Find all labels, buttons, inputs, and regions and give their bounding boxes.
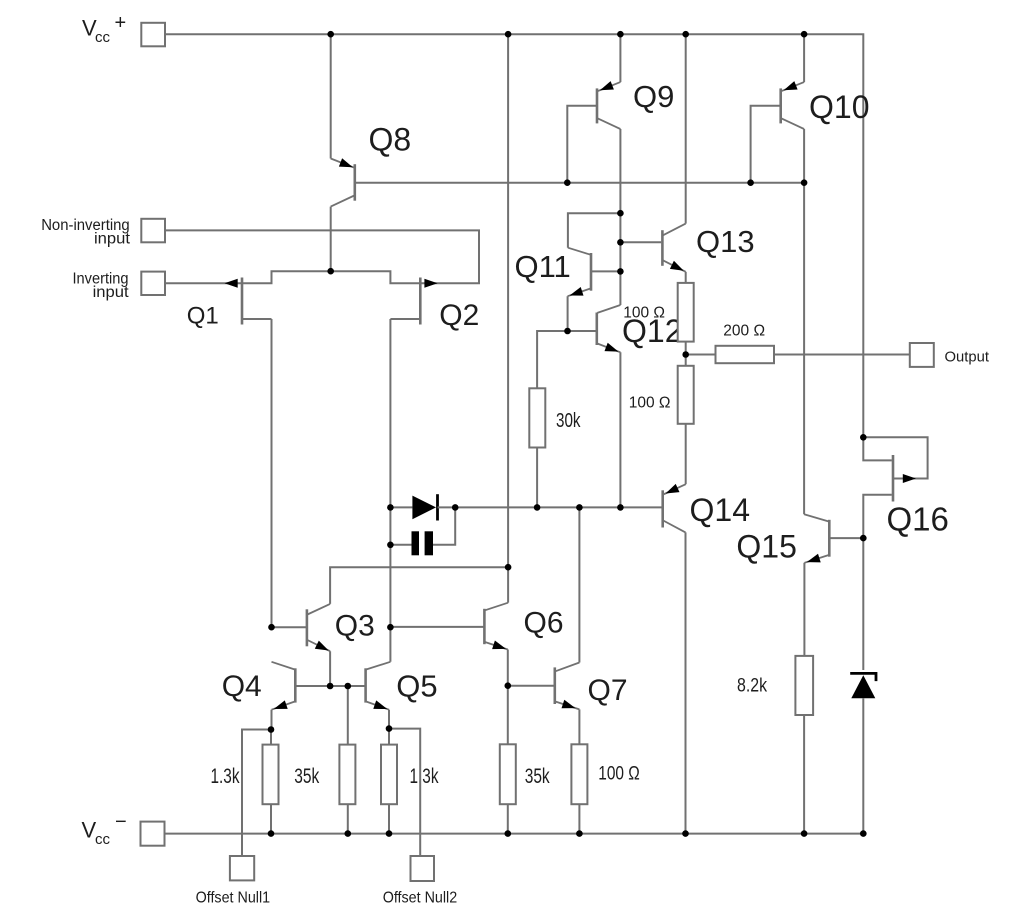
transistor Q13 — [620, 224, 754, 272]
wire Q15 base node down to zener — [862, 538, 864, 670]
svg-text:Q14: Q14 — [690, 492, 750, 528]
power terminal Vcc- — [141, 822, 165, 846]
label Vcc+ — [82, 12, 126, 46]
svg-text:Q15: Q15 — [736, 529, 796, 565]
transistor Q14 — [663, 484, 750, 533]
wire Q3 collector to Q6 collector node — [330, 567, 508, 604]
svg-text:Q8: Q8 — [369, 122, 412, 158]
transistor Q1 — [187, 278, 272, 330]
power terminal Vcc+ — [141, 23, 165, 47]
resistor 1.3k left — [211, 745, 279, 805]
wire Offset Null1 to Q4 emitter — [242, 730, 271, 857]
svg-text:Offset Null1: Offset Null1 — [196, 890, 271, 907]
wire Q4 emitter down — [271, 710, 273, 730]
wire 1.3k left top — [270, 730, 272, 745]
resistor 35k right — [500, 744, 550, 804]
svg-text:Q7: Q7 — [588, 674, 628, 707]
terminal Offset Null1 — [230, 856, 254, 880]
resistor 200 ohm — [716, 323, 775, 364]
svg-text:Q5: Q5 — [396, 669, 437, 704]
wire Q10 collector down to Q15 collector — [803, 129, 805, 514]
wire 35k right bottom — [507, 804, 509, 833]
svg-text:Q2: Q2 — [439, 299, 479, 332]
wire output node tap — [686, 354, 716, 356]
svg-text:Q3: Q3 — [335, 610, 375, 643]
wire Q10 emitter to Vcc+ — [803, 34, 805, 82]
junction Q11 emitter/Q12 base/30k — [564, 328, 571, 335]
wire Q8 collector to Q1/Q2 collector node — [330, 207, 332, 272]
wire Vcc+ top rail — [165, 34, 863, 437]
wire between 100 ohm resistors — [685, 342, 687, 366]
svg-text:35k: 35k — [525, 765, 550, 788]
resistor 30k — [529, 388, 581, 447]
input terminal Inverting input — [141, 272, 165, 295]
transistor Q5 — [366, 662, 438, 710]
svg-text:Output: Output — [945, 349, 990, 366]
junction Vcc-/100 ohm — [576, 830, 583, 837]
junction diode cathode/capacitor — [452, 504, 459, 511]
wire Offset Null2 to Q5 emitter — [389, 729, 420, 856]
wire x508 from Vcc+ to Q6 node — [507, 34, 509, 567]
wire 1.3k left bottom — [270, 804, 272, 833]
svg-text:1.3k: 1.3k — [211, 765, 240, 788]
wire non-inverting input to Q2 emitter — [165, 230, 479, 283]
wire Q2 base down to Q5 collector — [389, 319, 391, 662]
wire 35k left bottom — [347, 804, 349, 833]
resistor 35k left — [294, 745, 355, 805]
wire Q12 emitter down to Q14 base node — [619, 352, 621, 507]
junction Q12 emitter/diode row — [617, 504, 624, 511]
resistor 100 ohm upper — [623, 283, 693, 342]
label Offset Null2 — [383, 890, 458, 907]
junction Vcc-/35k right — [505, 830, 512, 837]
wire Vcc- bottom rail — [165, 833, 864, 835]
label Vcc- — [82, 811, 127, 848]
transistor Q4 — [222, 662, 296, 710]
junction 30k bottom/diode row — [534, 504, 541, 511]
svg-text:Q1: Q1 — [187, 303, 219, 330]
transistor Q8 — [331, 122, 411, 207]
junction Q6 emitter/Q7 base/35k — [505, 682, 512, 689]
wire 35k right top — [507, 686, 509, 745]
svg-text:Q9: Q9 — [633, 79, 674, 114]
input terminal Non-inverting input — [141, 219, 165, 243]
wire diode row to Q14 base — [438, 506, 662, 508]
resistor 100 ohm lower — [629, 366, 694, 424]
transistor Q15 — [736, 514, 863, 564]
junction Vcc+/Q8 emitter — [327, 31, 334, 38]
wire Q13 emitter to Vcc+ — [685, 34, 687, 223]
svg-text:1.3k: 1.3k — [410, 765, 439, 788]
junction Q11 base node — [617, 268, 624, 275]
transistor Q7 — [508, 663, 627, 710]
svg-text:+: + — [115, 12, 127, 34]
wire Q7 emitter down — [578, 709, 580, 744]
junction Vcc-/8.2k — [801, 830, 808, 837]
wire 1.3k right bottom — [388, 804, 390, 833]
svg-text:cc: cc — [95, 29, 111, 46]
wire Q14 collector to Vcc- — [685, 532, 687, 833]
transistor Q16 — [863, 437, 949, 538]
junction bias rail/Q10 base — [747, 179, 754, 186]
junction Vcc+/Q10 emitter — [801, 31, 808, 38]
junction Vcc-/1.3k left — [268, 830, 275, 837]
junction Q7 collector/diode row — [576, 504, 583, 511]
wire Q7 collector up to diode row — [578, 507, 580, 662]
wire 200 ohm to Output terminal — [774, 354, 910, 356]
svg-text:100 Ω: 100 Ω — [629, 395, 671, 412]
wire Q4/Q5 base rail — [296, 685, 365, 687]
resistor 100 ohm bottom — [571, 744, 639, 804]
svg-text:input: input — [93, 284, 130, 301]
svg-text:Q13: Q13 — [696, 224, 755, 259]
junction capacitor/Q2 base line — [387, 542, 394, 549]
transistor Q3 — [272, 604, 375, 651]
junction Q3 base/Q1 base line — [268, 624, 275, 631]
svg-text:Q11: Q11 — [515, 249, 571, 284]
wire Q9 emitter to Vcc+ — [619, 34, 621, 82]
junction Vcc-/Q14 collector — [682, 830, 689, 837]
junction Vcc-/35k left — [345, 830, 352, 837]
wire Q8/Q9/Q10 base bias rail — [356, 182, 804, 184]
junction Vcc-/1.3k right — [386, 830, 393, 837]
svg-text:Q10: Q10 — [809, 89, 869, 125]
diode D1 — [390, 494, 437, 520]
junction 35k left/Q4 Q5 base rail — [345, 683, 352, 690]
svg-text:30k: 30k — [556, 409, 581, 432]
svg-text:100 Ω: 100 Ω — [623, 305, 665, 322]
junction Q3 collector/Q6 collector/x508 — [505, 564, 512, 571]
junction Vcc+/Q9 emitter — [617, 31, 624, 38]
svg-text:Q16: Q16 — [887, 501, 949, 538]
wire Q11 collector hook — [568, 213, 621, 248]
junction bias rail/Q9 base — [564, 179, 571, 186]
wire Q5 emitter down — [388, 710, 390, 729]
wire Q1/Q2 collectors rail — [243, 271, 420, 283]
junction Vcc+/x508 — [505, 31, 512, 38]
transistor Q10 — [781, 81, 870, 129]
wire Q9 base hook to bias rail — [567, 106, 596, 183]
wire Q11 emitter node to 30k top — [537, 331, 567, 388]
zener diode D2 — [850, 673, 876, 698]
wire inverting input to Q1 emitter — [165, 282, 241, 284]
junction output node between 100 ohm resistors — [682, 351, 689, 358]
wire Q1 base down to Q3 base — [271, 319, 273, 627]
junction Q5 collector/Q6 base line — [387, 624, 394, 631]
label Inverting input — [73, 271, 130, 302]
svg-text:input: input — [94, 231, 131, 248]
label Non-inverting input — [41, 217, 131, 248]
svg-text:35k: 35k — [294, 765, 319, 788]
junction Q13 base node — [617, 239, 624, 246]
svg-text:Q6: Q6 — [524, 607, 564, 640]
wire Q9 collector down to Q12 collector — [619, 129, 621, 305]
junction Q4 emitter/Offset Null1 — [268, 726, 275, 733]
junction bias rail/Q10 collector — [801, 179, 808, 186]
junction Q8 collector/Q1 Q2 collectors — [327, 268, 334, 275]
wire 100 ohm bottom to rail — [578, 804, 580, 833]
svg-text:100 Ω: 100 Ω — [598, 762, 640, 784]
wire Q15 emitter to 8.2k — [803, 563, 805, 656]
wire Q3 emitter down — [329, 651, 331, 686]
terminal Offset Null2 — [411, 856, 435, 881]
wire Q8 emitter to Vcc+ — [330, 34, 332, 158]
transistor Q2 — [390, 278, 479, 333]
label Output — [945, 349, 990, 366]
capacitor C1 — [390, 507, 455, 555]
svg-text:Offset Null2: Offset Null2 — [383, 890, 458, 907]
wire Q6 collector from node — [507, 567, 509, 603]
junction Q16 node — [860, 434, 867, 441]
wire 35k left top — [347, 686, 349, 745]
svg-text:−: − — [115, 811, 127, 833]
wire Q10 base hook to bias rail — [751, 106, 780, 183]
output terminal Output — [910, 343, 934, 367]
svg-text:8.2k: 8.2k — [737, 675, 767, 697]
transistor Q9 — [597, 79, 674, 129]
svg-text:200 Ω: 200 Ω — [723, 323, 765, 340]
junction Q15 base/Q16 collector/zener — [860, 535, 867, 542]
wire 1.3k right top — [388, 729, 390, 745]
transistor Q12 — [568, 305, 683, 352]
junction Vcc+/Q13 emitter — [682, 31, 689, 38]
wire Q13 collector to resistor — [685, 272, 687, 283]
wire 100 ohm lower to Q14 emitter — [685, 424, 687, 484]
svg-text:cc: cc — [95, 831, 111, 848]
junction diode anode/Q2 base line — [387, 504, 394, 511]
resistor 8.2k — [737, 656, 813, 715]
transistor Q6 — [390, 603, 563, 650]
junction Q3 emitter/Q4 Q5 base rail — [327, 683, 334, 690]
wire 8.2k bottom to rail — [803, 715, 805, 834]
junction Q11 collector node — [617, 210, 624, 217]
wire zener to Vcc- — [862, 698, 864, 833]
junction Q5 emitter/Offset Null2 — [386, 725, 393, 732]
junction Vcc-/zener — [860, 830, 867, 837]
label Offset Null1 — [196, 890, 271, 907]
transistor Q11 — [515, 248, 621, 297]
resistor 1.3k right — [381, 745, 439, 805]
wire Q11 emitter down — [567, 296, 569, 331]
svg-text:Q4: Q4 — [222, 670, 262, 703]
wire 30k bottom to diode row — [536, 448, 538, 508]
wire Q6 emitter down — [507, 650, 509, 686]
